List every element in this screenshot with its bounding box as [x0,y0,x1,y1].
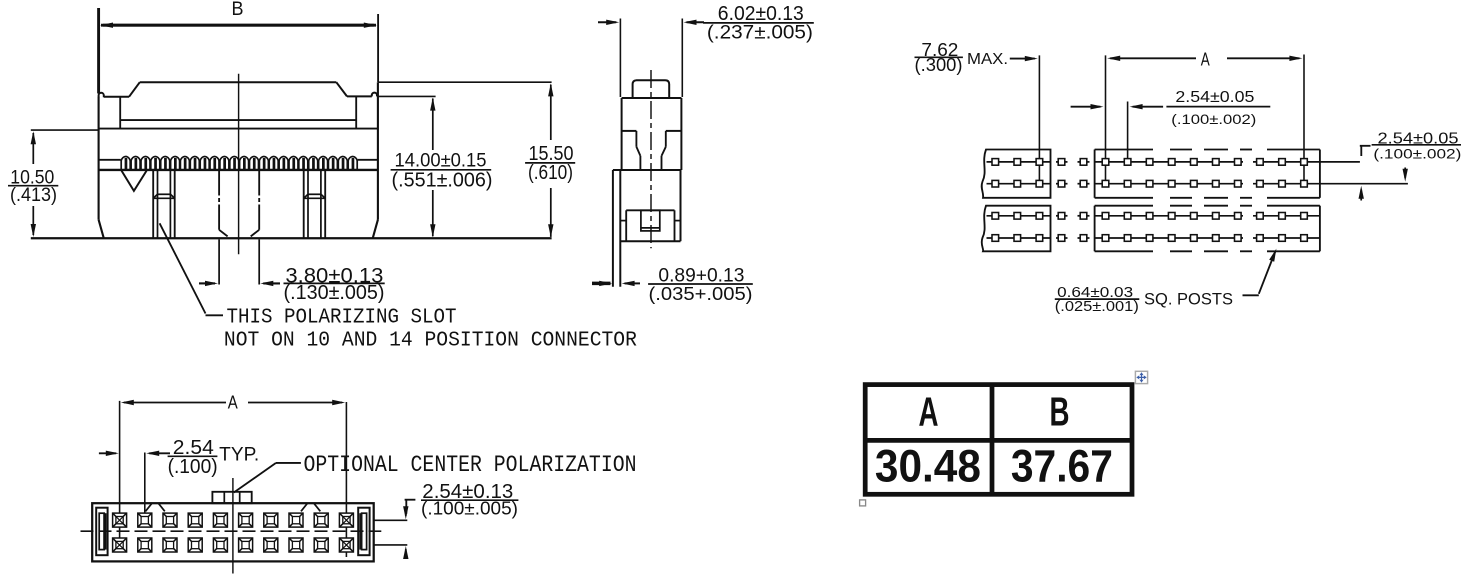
svg-text:MAX.: MAX. [967,50,1008,68]
svg-text:37.67: 37.67 [1011,440,1113,491]
svg-text:14.00±0.15: 14.00±0.15 [395,150,487,172]
svg-text:(.035+.005): (.035+.005) [649,283,753,304]
svg-text:(.610): (.610) [528,162,573,184]
svg-text:NOT ON 10 AND 14 POSITION CONN: NOT ON 10 AND 14 POSITION CONNECTOR [224,328,637,352]
svg-text:OPTIONAL CENTER POLARIZATION: OPTIONAL CENTER POLARIZATION [304,452,637,478]
svg-text:TYP.: TYP. [219,445,259,466]
svg-text:(.413): (.413) [10,185,57,206]
svg-text:B: B [1050,389,1070,435]
svg-text:A: A [1201,49,1210,69]
svg-text:A: A [228,392,239,413]
svg-text:(.100±.005): (.100±.005) [421,499,518,519]
svg-text:(.025±.001): (.025±.001) [1055,298,1139,315]
svg-text:2.54±0.05: 2.54±0.05 [1175,89,1254,106]
svg-text:A: A [919,389,939,435]
svg-text:SQ. POSTS: SQ. POSTS [1144,290,1233,309]
svg-text:(.100±.002): (.100±.002) [1373,146,1461,162]
svg-text:(.100±.002): (.100±.002) [1171,112,1256,128]
svg-text:B: B [232,0,244,20]
svg-text:(.130±.005): (.130±.005) [284,282,385,304]
svg-text:(.237±.005): (.237±.005) [707,23,813,44]
svg-text:(.300): (.300) [915,55,963,75]
svg-text:30.48: 30.48 [875,440,981,491]
svg-text:(.551±.006): (.551±.006) [392,169,493,191]
svg-text:THIS POLARIZING SLOT: THIS POLARIZING SLOT [227,305,457,329]
svg-text:(.100): (.100) [168,456,218,478]
